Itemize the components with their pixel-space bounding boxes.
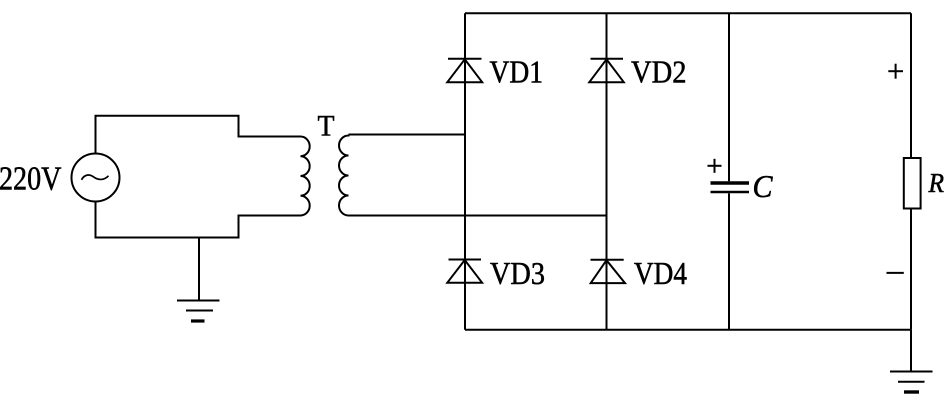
svg-text:220V: 220V (0, 161, 62, 198)
wire bridge left vertical (464, 13, 466, 329)
wire capacitor branch bottom (728, 193, 730, 330)
wire resistor branch top (910, 13, 912, 158)
AC source V1 (220V) (72, 154, 120, 202)
svg-text:C: C (753, 168, 774, 204)
ground (left) (177, 238, 220, 322)
svg-text:VD2: VD2 (631, 53, 687, 89)
wire secondary bottom to bridge node B (349, 215, 607, 217)
svg-text:VD1: VD1 (490, 53, 544, 89)
wire source top (96, 116, 301, 154)
svg-text:VD3: VD3 (490, 255, 545, 291)
diode VD1 (447, 59, 482, 82)
wire top rail (+) (465, 12, 911, 14)
resistor R body (904, 158, 921, 209)
svg-text:T: T (318, 110, 335, 143)
capacitor C plates (711, 183, 750, 192)
capacitor polarity plus (708, 159, 722, 173)
wire resistor branch bottom (910, 209, 912, 330)
wire to right ground (910, 330, 912, 372)
svg-text:R: R (928, 168, 945, 198)
diode VD2 (589, 59, 624, 82)
ground (right) (890, 372, 933, 393)
wire source bottom (96, 202, 301, 238)
diode VD4 (591, 260, 626, 283)
transformer T primary winding (301, 137, 310, 216)
node plus label (888, 64, 903, 79)
node minus label (887, 272, 904, 274)
wire bridge right vertical (606, 13, 608, 329)
svg-text:VD4: VD4 (634, 255, 687, 291)
wire capacitor branch top (728, 13, 730, 181)
wire bottom rail (-) (465, 329, 911, 331)
wire secondary top to bridge node A (349, 134, 466, 136)
diode VD3 (447, 260, 482, 283)
transformer T secondary winding (339, 135, 349, 216)
